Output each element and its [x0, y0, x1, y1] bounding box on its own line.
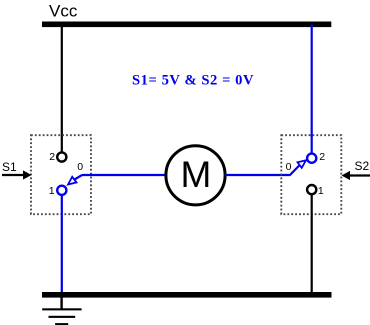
- wire motor to S2 pin 0 (blue): [225, 174, 291, 176]
- S1 lever wire (pin 0 toward pin 1, blue): [74, 175, 82, 180]
- power rail VCC (top bus): [42, 22, 331, 28]
- S2 pin 0 label: [286, 161, 292, 173]
- S2 pin 2 label: [319, 151, 325, 163]
- S1 pin 0 label: [77, 161, 83, 173]
- S2 pin 2 (contact to VCC, closed, blue): [307, 154, 316, 163]
- S1 pin 1 label: [49, 185, 55, 197]
- S2 pin 1 (contact to GND, open): [307, 185, 316, 194]
- svg-text:0: 0: [77, 161, 83, 173]
- S1 pin 2 (contact to VCC, open): [57, 152, 66, 161]
- S2 pin 1 label: [318, 185, 324, 197]
- wire S1 pin 0 to motor (blue): [82, 174, 166, 176]
- S2 lever wire (pin 0 toward pin 2, blue): [290, 165, 300, 175]
- wire S2 pin 1 to GND rail (black): [311, 194, 313, 293]
- svg-text:Vcc: Vcc: [49, 1, 78, 20]
- wire VCC rail to S1 pin 2 (black): [61, 24, 63, 153]
- S2 lever arrowhead (open, blue): [298, 160, 307, 168]
- svg-text:S1: S1: [2, 160, 17, 174]
- S2 actuation arrow (black): [342, 171, 370, 180]
- motor M letter: [180, 154, 211, 195]
- svg-text:1: 1: [49, 185, 55, 197]
- motor M body: [166, 146, 225, 205]
- label VCC: [49, 1, 78, 20]
- label S2: [355, 159, 370, 173]
- svg-text:2: 2: [49, 151, 55, 163]
- wire VCC rail to S2 pin 2 (energized, blue): [311, 25, 313, 155]
- svg-text:0: 0: [286, 161, 292, 173]
- svg-text:S1= 5V & S2 = 0V: S1= 5V & S2 = 0V: [132, 73, 254, 89]
- svg-text:M: M: [180, 154, 211, 195]
- ground symbol: [42, 298, 81, 325]
- switch S2 body (dotted box): [281, 135, 341, 214]
- annotation "S1= 5V & S2 = 0V": [132, 73, 254, 89]
- svg-text:1: 1: [318, 185, 324, 197]
- wire S1 pin 1 to GND rail (blue): [61, 195, 63, 293]
- ground rail (bottom bus): [42, 292, 332, 298]
- S1 lever arrowhead (open, blue): [68, 177, 77, 185]
- switch S1 body (dotted box): [31, 135, 91, 214]
- S1 pin 2 label: [49, 151, 55, 163]
- svg-text:S2: S2: [355, 159, 370, 173]
- S1 actuation arrow (black): [2, 170, 32, 179]
- svg-text:2: 2: [319, 151, 325, 163]
- S1 pin 1 (contact to GND, closed): [57, 186, 66, 195]
- label S1: [2, 160, 17, 174]
